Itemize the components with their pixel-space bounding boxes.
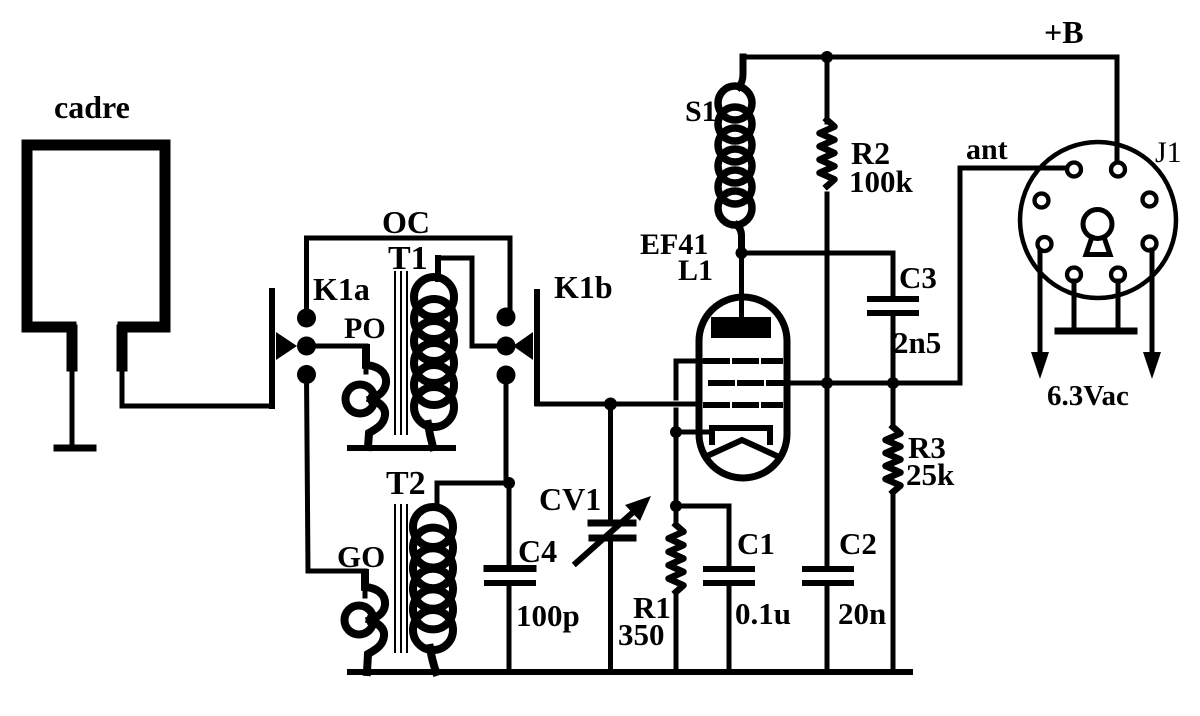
svg-text:100k: 100k bbox=[849, 164, 914, 199]
svg-text:GO: GO bbox=[337, 539, 385, 574]
svg-text:cadre: cadre bbox=[54, 89, 130, 125]
switch K1a contact middle (PO) bbox=[297, 337, 316, 356]
socket pin 7 bbox=[1067, 268, 1081, 282]
svg-text:20n: 20n bbox=[838, 596, 886, 631]
socket pin 8 bbox=[1111, 268, 1125, 282]
wire K1b bottom contact down to C4 bbox=[506, 375, 509, 566]
node junction T2 top / C4 bbox=[503, 477, 515, 489]
svg-text:S1: S1 bbox=[685, 95, 717, 128]
node junction R2 top bbox=[821, 51, 833, 63]
wire socket heater-tap pins to bar bbox=[1074, 281, 1118, 330]
transformer T2 core bbox=[395, 505, 407, 652]
node screen grid junction bbox=[821, 377, 833, 389]
wire cadre right lead to switch K1a wiper bbox=[122, 360, 272, 406]
capacitor C3 bbox=[870, 299, 916, 427]
transformer T1 secondary coil bbox=[414, 258, 454, 447]
switch K1b contact middle bbox=[497, 337, 516, 356]
node junction anode/S1/C3 bbox=[736, 247, 748, 259]
ground bbox=[57, 445, 93, 452]
svg-text:ant: ant bbox=[966, 133, 1008, 166]
wire cadre left lead to ground bbox=[70, 360, 75, 446]
coil S1 bbox=[718, 57, 752, 253]
svg-text:C3: C3 bbox=[899, 260, 937, 295]
node cathode junction bbox=[670, 426, 682, 438]
capacitor C2 bbox=[805, 569, 851, 672]
wire +B top rail bbox=[743, 57, 1117, 160]
tube grid g1 (dashed) bbox=[706, 402, 780, 408]
svg-text:25k: 25k bbox=[906, 457, 955, 492]
svg-text:T2: T2 bbox=[386, 465, 426, 502]
svg-text:+B: +B bbox=[1044, 14, 1084, 50]
transformer T2 secondary coil bbox=[413, 507, 453, 672]
wire cathode line down to R1 (with hop at g1 crossing) bbox=[674, 361, 679, 398]
wire screen grid g2 to ant riser bbox=[786, 381, 960, 386]
socket pin 1 bbox=[1067, 163, 1081, 177]
tube cathode bbox=[712, 428, 770, 442]
transformer T1 bottom bar bbox=[350, 445, 453, 451]
svg-text:C1: C1 bbox=[737, 526, 775, 561]
wire PO contact to T1 primary bbox=[307, 346, 367, 372]
loop antenna "cadre" bbox=[27, 145, 165, 366]
svg-text:C4: C4 bbox=[518, 533, 557, 569]
wire cathode to left line bbox=[676, 430, 712, 435]
svg-text:CV1: CV1 bbox=[539, 481, 601, 517]
transformer T1 core bbox=[395, 272, 407, 434]
svg-text:100p: 100p bbox=[516, 598, 580, 633]
svg-text:K1b: K1b bbox=[554, 269, 613, 305]
tube heater filament bbox=[707, 440, 777, 456]
wire K1b wiper to tube grid g1 bbox=[537, 400, 700, 404]
ground bus bbox=[350, 669, 910, 675]
tube EF41 envelope bbox=[699, 297, 787, 478]
wire g3 to cathode line bbox=[676, 359, 704, 364]
resistor R3 bbox=[886, 427, 901, 492]
wire GO: K1a bottom contact to T2 primary bbox=[307, 375, 366, 597]
variable capacitor CV1 bbox=[576, 404, 651, 672]
svg-text:2n5: 2n5 bbox=[893, 325, 941, 360]
transformer T2 primary coil bbox=[345, 573, 386, 672]
socket pin 2 bbox=[1111, 163, 1125, 177]
wire R3 to ground bus bbox=[891, 492, 896, 672]
svg-text:L1: L1 bbox=[678, 254, 713, 287]
svg-text:PO: PO bbox=[344, 312, 386, 345]
svg-text:350: 350 bbox=[618, 617, 665, 652]
wire R1 to ground bus bbox=[674, 592, 679, 672]
switch K1b wiper bar bbox=[513, 292, 537, 403]
wire T2 secondary top lead bbox=[437, 483, 509, 507]
capacitor C4 bbox=[487, 569, 533, 673]
svg-text:6.3Vac: 6.3Vac bbox=[1047, 380, 1129, 412]
wire R2 bottom to screen node and C2 bbox=[825, 194, 830, 566]
resistor R1 bbox=[669, 525, 684, 592]
switch K1b contact top bbox=[497, 308, 516, 327]
tube anode plate bbox=[711, 317, 771, 338]
socket J1 outline bbox=[1020, 142, 1176, 298]
svg-text:OC: OC bbox=[382, 204, 430, 240]
socket pin 3 bbox=[1035, 194, 1049, 208]
arrow 6.3Vac left bbox=[1031, 251, 1049, 379]
switch K1b contact bottom bbox=[497, 366, 516, 385]
wire R2 top lead bbox=[825, 57, 830, 122]
node junction CV1 top bbox=[604, 398, 617, 411]
switch K1a wiper bar bbox=[272, 291, 297, 406]
wire ant riser to socket pin bbox=[960, 168, 1064, 383]
wire T1 secondary top to K1b middle contact bbox=[438, 258, 506, 346]
wire anode lead bbox=[739, 253, 744, 320]
socket keyhole bbox=[1083, 210, 1112, 255]
transformer T1 primary coil bbox=[346, 348, 387, 447]
switch K1a contact bottom (GO) bbox=[297, 365, 316, 384]
socket pin 4 bbox=[1143, 193, 1157, 207]
tube grid g2 (dashed) bbox=[711, 380, 786, 386]
svg-text:C2: C2 bbox=[839, 526, 877, 561]
capacitor C1 bbox=[706, 569, 752, 672]
wire anode node to C3 bbox=[742, 253, 894, 296]
resistor R2 bbox=[820, 120, 835, 186]
arrow 6.3Vac right bbox=[1143, 250, 1161, 379]
node junction C3/R3 bbox=[887, 377, 899, 389]
wire OC: K1a top contact to K1b top contact bbox=[307, 238, 511, 318]
socket pin 6 bbox=[1143, 237, 1157, 251]
switch K1a contact top bbox=[297, 309, 316, 328]
tube grid g3 (dashed) bbox=[706, 358, 780, 364]
svg-text:J1: J1 bbox=[1155, 136, 1182, 169]
svg-text:0.1u: 0.1u bbox=[735, 596, 791, 631]
socket pin 5 bbox=[1038, 237, 1052, 251]
wire junction to C1 bbox=[676, 506, 729, 566]
svg-text:K1a: K1a bbox=[313, 271, 370, 307]
chassis bar under socket bbox=[1058, 328, 1134, 335]
node junction R1/C1 bbox=[670, 500, 682, 512]
